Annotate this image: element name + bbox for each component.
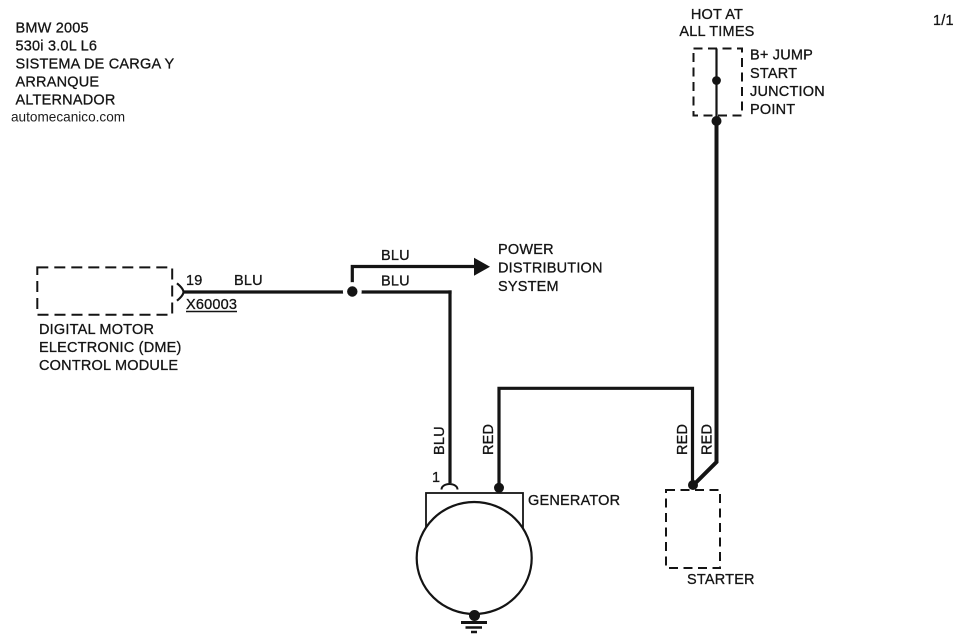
svg-text:ALL TIMES: ALL TIMES [679, 24, 754, 40]
svg-text:automecanico.com: automecanico.com [11, 110, 125, 125]
underline X60003 [186, 311, 237, 313]
wire inside B+ box [715, 49, 717, 122]
ground symbol bar 2 [466, 626, 483, 629]
svg-text:ALTERNADOR: ALTERNADOR [16, 93, 116, 109]
svg-text:1/1: 1/1 [933, 13, 954, 29]
svg-text:BMW 2005: BMW 2005 [16, 20, 89, 36]
node BLU junction [343, 282, 362, 301]
svg-text:STARTER: STARTER [687, 572, 755, 588]
svg-text:BLU: BLU [234, 273, 263, 289]
B+ jump start junction point dashed box [694, 49, 743, 116]
svg-text:HOT AT: HOT AT [691, 7, 743, 23]
svg-text:1: 1 [432, 470, 440, 486]
svg-text:START: START [750, 66, 797, 82]
wire BLU from DME pin 19 to junction [184, 290, 452, 293]
ground symbol bar 1 [461, 621, 487, 624]
svg-text:RED: RED [700, 424, 716, 455]
svg-text:530i 3.0L L6: 530i 3.0L L6 [16, 38, 98, 54]
svg-text:DISTRIBUTION: DISTRIBUTION [498, 261, 603, 277]
svg-text:GENERATOR: GENERATOR [528, 493, 620, 509]
wire RED from B+ junction down to starter [694, 121, 717, 485]
svg-text:POWER: POWER [498, 242, 554, 258]
svg-text:BLU: BLU [432, 426, 448, 455]
svg-text:DIGITAL MOTOR: DIGITAL MOTOR [39, 322, 154, 338]
svg-text:B+ JUMP: B+ JUMP [750, 48, 813, 64]
svg-text:JUNCTION: JUNCTION [750, 84, 825, 100]
connector chevron pin 19 [177, 283, 184, 300]
node RED terminal on generator [494, 483, 504, 493]
svg-text:ELECTRONIC (DME): ELECTRONIC (DME) [39, 340, 182, 356]
DME control module dashed box [37, 267, 172, 314]
junction dot inside B+ box [712, 76, 721, 85]
svg-text:BLU: BLU [381, 274, 410, 290]
arrowhead to power distribution system [474, 258, 490, 276]
generator circle G1 [417, 502, 532, 614]
svg-text:BLU: BLU [381, 248, 410, 264]
generator box [426, 493, 523, 527]
starter dashed box [666, 490, 720, 568]
node B+ junction below box [712, 116, 722, 126]
svg-text:SYSTEM: SYSTEM [498, 279, 559, 295]
wire RED from generator to starter junction [499, 388, 693, 488]
ground terminal dot on generator [469, 610, 480, 621]
pin 1 connector arc on generator [442, 484, 458, 490]
node starter junction [688, 480, 698, 490]
svg-text:ARRANQUE: ARRANQUE [16, 75, 100, 91]
svg-text:CONTROL MODULE: CONTROL MODULE [39, 358, 178, 374]
svg-text:POINT: POINT [750, 102, 795, 118]
svg-text:RED: RED [675, 424, 691, 455]
svg-text:19: 19 [186, 273, 203, 289]
wire BLU down to generator [448, 290, 451, 483]
wire BLU branch to power distribution [352, 267, 476, 293]
svg-text:SISTEMA DE CARGA Y: SISTEMA DE CARGA Y [16, 57, 175, 73]
svg-text:X60003: X60003 [186, 297, 237, 313]
svg-text:RED: RED [481, 424, 497, 455]
ground symbol bar 3 [471, 631, 477, 634]
